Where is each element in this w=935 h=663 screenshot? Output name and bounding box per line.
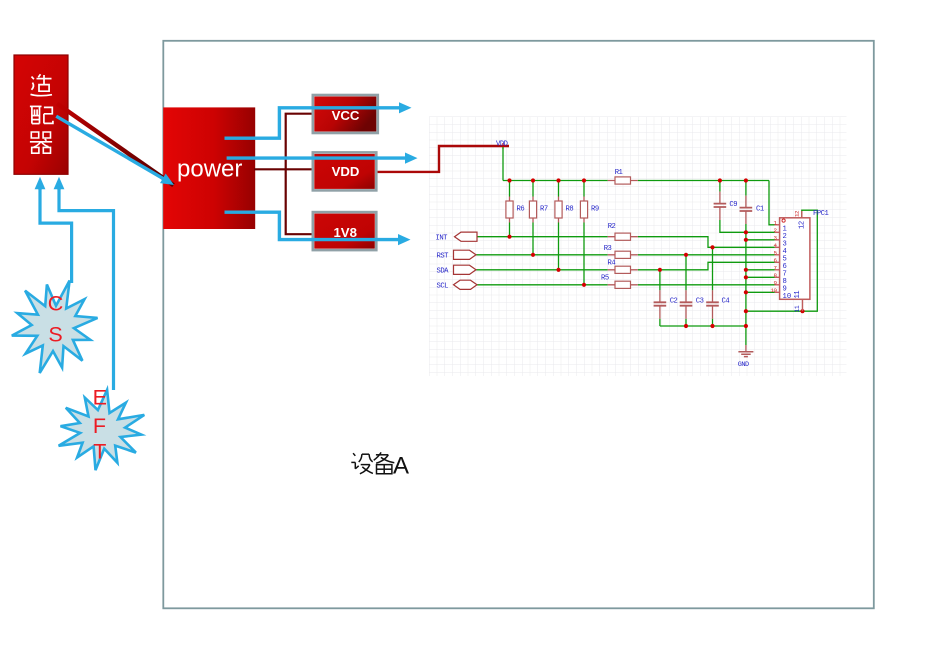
junction gnd/capbus	[744, 324, 748, 328]
VDD supply trace from VDD box to schematic	[378, 146, 510, 172]
wire C2 top lead wire	[659, 270, 661, 291]
wire R7 bottom lead	[532, 223, 534, 255]
junction bus/C1	[744, 178, 748, 182]
red arrow adapter to power	[57, 104, 174, 186]
wire VDD bus right of R1	[638, 180, 769, 182]
junction capbus/C4	[710, 324, 714, 328]
pin stub 3	[775, 239, 780, 241]
wire to pin 1	[769, 181, 775, 225]
wire R2 to pin 4	[638, 237, 775, 248]
svg-text:R1: R1	[615, 169, 623, 177]
pin stub 4	[775, 246, 780, 248]
svg-text:SDA: SDA	[437, 267, 450, 275]
cyan right-arrow VDD out	[405, 153, 418, 164]
junction R6/INT	[507, 235, 511, 239]
wire to pin 3	[746, 239, 775, 241]
junction bus/R6	[507, 178, 511, 182]
wire from CS star to adapter	[40, 187, 72, 283]
junction bus/R7	[531, 178, 535, 182]
pin stub 8	[775, 276, 780, 278]
wire C3 top lead wire	[685, 255, 687, 290]
wire C4 bottom lead wire	[712, 319, 714, 326]
pin stub 7	[775, 269, 780, 271]
svg-text:E: E	[93, 386, 107, 410]
svg-text:C1: C1	[756, 206, 764, 214]
port RST	[437, 250, 477, 260]
capacitor C2	[654, 290, 678, 318]
svg-text:INT: INT	[436, 234, 449, 242]
junction gnd/loop	[744, 309, 748, 313]
wire to pin 7	[746, 269, 775, 271]
resistor R7	[529, 197, 547, 223]
junction bus/R9	[582, 178, 586, 182]
wire SCL to R5	[476, 284, 608, 286]
junction bus/C9	[718, 178, 722, 182]
cyan up-arrow from EFT	[57, 188, 60, 190]
svg-text:VCC: VCC	[332, 108, 360, 123]
svg-text:10: 10	[783, 293, 792, 301]
wire RST to R3	[476, 254, 608, 256]
resistor R5	[601, 275, 638, 289]
svg-text:VDD: VDD	[496, 140, 508, 148]
connector FPC1 body	[780, 218, 810, 299]
wire from EFT star to adapter	[59, 187, 114, 390]
svg-text:C4: C4	[722, 297, 730, 305]
glyph 适	[31, 74, 53, 96]
node VDD marker	[500, 143, 506, 149]
junction gnd/pin7	[744, 268, 748, 272]
junction capbus/C3	[684, 324, 688, 328]
glyph 设	[351, 453, 373, 474]
schematic grid background	[429, 117, 847, 377]
glyph 配	[30, 106, 53, 123]
junction gnd/pin8	[744, 275, 748, 279]
cyan wire power to VDD arrow	[227, 156, 406, 159]
svg-text:FPC1: FPC1	[813, 210, 828, 218]
device label 设备A	[351, 452, 394, 473]
svg-text:10: 10	[771, 287, 778, 294]
capacitor C4	[706, 290, 729, 318]
wire C2 bottom lead wire	[659, 319, 661, 326]
junction C4/pin4 net	[710, 245, 714, 249]
resistor R8	[555, 197, 573, 223]
port SDA	[437, 265, 477, 275]
ground GND symbol	[738, 345, 754, 369]
wire SDA to R4	[476, 269, 608, 271]
wire VDD drop	[502, 147, 504, 181]
svg-text:C3: C3	[696, 297, 704, 305]
pin stub 9	[775, 284, 780, 286]
junction R9/SCL	[582, 283, 586, 287]
wire R8 bottom lead	[558, 223, 560, 270]
cyan wire power to VCC arrow	[225, 108, 400, 138]
svg-text:R9: R9	[591, 206, 599, 214]
pin stub 2	[775, 231, 780, 233]
svg-text:T: T	[93, 440, 106, 464]
svg-text:RST: RST	[437, 252, 450, 260]
junction R8/SDA	[556, 268, 560, 272]
1V8 box	[313, 212, 377, 250]
wire C9 top lead wire	[719, 181, 721, 192]
cyan arrow adapter to power	[56, 116, 165, 180]
wire R5 to pin 9	[638, 284, 775, 286]
junction gnd/pin10	[744, 290, 748, 294]
wire to pin 10	[746, 291, 775, 293]
svg-text:C2: C2	[670, 297, 678, 305]
power box	[163, 107, 255, 229]
svg-text:S: S	[48, 323, 62, 347]
svg-text:12: 12	[799, 221, 807, 229]
wire R6 bottom lead	[509, 223, 511, 237]
resistor R6	[506, 197, 524, 223]
glyph 备	[374, 452, 395, 473]
pin stub 5	[775, 254, 780, 256]
wire R8 top lead	[558, 181, 560, 197]
wire INT to R2	[477, 236, 608, 238]
junction C2/SDA	[658, 268, 662, 272]
junction gnd/pin3	[744, 238, 748, 242]
svg-text:12: 12	[794, 210, 801, 217]
wire R9 top lead	[583, 181, 585, 197]
resistor R2	[608, 223, 638, 240]
wire R6 top lead	[509, 181, 511, 197]
svg-text:F: F	[93, 414, 106, 438]
resistor R1	[608, 169, 638, 184]
svg-text:11: 11	[794, 305, 801, 312]
capacitor C3	[680, 290, 704, 318]
svg-text:R7: R7	[540, 206, 548, 214]
junction pin11/loop	[800, 309, 804, 313]
wire R7 top lead	[532, 181, 534, 197]
pin stub 12 (top)	[801, 211, 803, 218]
resistor R4	[608, 260, 638, 274]
pin stub 10	[775, 291, 780, 293]
wire pin12 to pin11 ground loop	[746, 210, 817, 311]
adapter box 适配器	[14, 55, 68, 174]
svg-text:GND: GND	[738, 361, 749, 369]
svg-text:R3: R3	[604, 245, 612, 253]
wire C1 top lead wire	[745, 181, 747, 196]
pin stub 6	[775, 261, 780, 263]
svg-text:A: A	[393, 453, 409, 480]
wire GND main vertical	[745, 224, 747, 345]
cyan up-arrow from CS	[38, 188, 41, 190]
svg-text:R8: R8	[566, 206, 574, 214]
wire R3 to pin 5	[638, 254, 775, 256]
svg-text:VDD: VDD	[332, 164, 360, 179]
svg-text:SCL: SCL	[437, 282, 449, 290]
junction gnd/pin2	[744, 230, 748, 234]
svg-text:11: 11	[794, 291, 802, 299]
capacitor C1	[740, 196, 764, 224]
glyph 器	[30, 132, 52, 153]
resistor R9	[580, 197, 598, 223]
dark red tree: power to VCC/VDD/1V8	[254, 114, 313, 235]
port INT	[436, 232, 478, 242]
EFT star burst	[59, 390, 145, 470]
VDD box	[313, 152, 377, 190]
port SCL	[437, 280, 478, 290]
wire R4 to pin 6	[638, 262, 775, 270]
pin stub 1	[775, 224, 780, 226]
svg-text:R4: R4	[608, 260, 616, 268]
svg-text:R2: R2	[608, 223, 616, 231]
wire R9 bottom lead	[583, 223, 585, 285]
wire to pin 8	[746, 276, 775, 278]
pin stub 11 (bottom)	[802, 299, 804, 311]
capacitor C9	[714, 192, 738, 220]
svg-text:R5: R5	[601, 275, 609, 283]
cyan right-arrow 1V8 out	[398, 234, 411, 245]
wire capacitor ground bus	[660, 325, 746, 327]
pin 1 indicator circle	[782, 219, 785, 222]
cyan right-arrow VCC out	[399, 102, 412, 113]
CS star burst	[12, 281, 98, 374]
outer device boundary rectangle	[163, 41, 874, 609]
wire C3 bottom lead wire	[685, 319, 687, 326]
junction C3/RST	[684, 253, 688, 257]
svg-text:C: C	[48, 292, 64, 316]
svg-text:C9: C9	[729, 201, 737, 209]
resistor R3	[604, 245, 638, 258]
wire C9 to pin 2	[720, 220, 775, 232]
wire C4 top lead wire	[712, 247, 714, 290]
wire VDD bus left of R1	[503, 180, 608, 182]
junction bus/R8	[556, 178, 560, 182]
svg-text:R6: R6	[517, 206, 525, 214]
junction R7/RST	[531, 253, 535, 257]
VCC box	[313, 95, 378, 133]
cyan wire power to 1V8 arrow	[225, 212, 399, 239]
